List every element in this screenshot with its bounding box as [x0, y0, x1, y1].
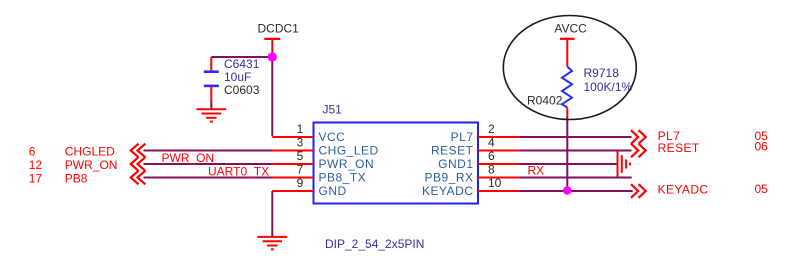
DNP circle marker	[503, 16, 636, 120]
pin 1 stub	[272, 136, 313, 138]
svg-text:AVCC: AVCC	[554, 22, 587, 36]
wire PL7 row	[519, 136, 631, 138]
wire UART0_TX row	[144, 177, 273, 179]
svg-text:12: 12	[29, 158, 43, 172]
svg-text:KEYADC: KEYADC	[658, 182, 709, 196]
wire junction to capacitor	[211, 56, 272, 58]
svg-text:7: 7	[297, 163, 304, 177]
wire KEYADC row	[519, 190, 633, 192]
svg-text:PB8_TX: PB8_TX	[319, 171, 367, 185]
ground below capacitor	[196, 109, 226, 121]
svg-text:R9718: R9718	[584, 66, 620, 80]
svg-text:10: 10	[488, 176, 502, 190]
svg-text:3: 3	[297, 136, 304, 150]
pin 3 stub	[272, 150, 313, 152]
svg-text:RESET: RESET	[431, 144, 474, 158]
svg-text:PB9_RX: PB9_RX	[424, 171, 473, 185]
svg-text:PWR_ON: PWR_ON	[162, 151, 215, 165]
pin 4 stub	[478, 150, 519, 152]
svg-text:R0402: R0402	[527, 94, 563, 108]
pin 8 stub	[478, 177, 519, 179]
svg-text:GND: GND	[319, 184, 347, 198]
svg-text:RX: RX	[528, 163, 545, 177]
pin 2 stub	[478, 136, 519, 138]
pin 10 stub	[478, 190, 519, 192]
svg-text:CHG_LED: CHG_LED	[319, 144, 379, 158]
svg-text:C6431: C6431	[224, 57, 260, 71]
ground right (rotated) on GND1	[618, 151, 630, 177]
svg-text:DCDC1: DCDC1	[258, 22, 300, 36]
svg-text:2: 2	[488, 122, 495, 136]
svg-text:1: 1	[297, 122, 304, 136]
svg-text:17: 17	[29, 172, 43, 186]
svg-text:PL7: PL7	[451, 130, 474, 144]
svg-text:8: 8	[488, 163, 495, 177]
wire AVCC pull-up vertical	[566, 115, 568, 190]
svg-text:10uF: 10uF	[224, 70, 251, 84]
pin 5 stub	[272, 163, 313, 165]
resistor R9718	[562, 67, 572, 116]
junction dot on KEYADC row	[563, 186, 571, 194]
svg-text:PWR_ON: PWR_ON	[319, 157, 375, 171]
svg-text:4: 4	[488, 136, 495, 150]
wire PWR_ON row	[144, 163, 273, 165]
svg-text:PWR_ON: PWR_ON	[65, 158, 118, 172]
svg-text:UART0_TX: UART0_TX	[208, 164, 269, 178]
svg-text:RESET: RESET	[658, 141, 700, 155]
svg-text:KEYADC: KEYADC	[422, 184, 473, 198]
svg-text:05: 05	[755, 182, 769, 196]
svg-text:GND1: GND1	[438, 157, 473, 171]
svg-text:100K/1%: 100K/1%	[584, 80, 633, 94]
svg-text:J51: J51	[323, 103, 343, 117]
svg-text:DIP_2_54_2x5PIN: DIP_2_54_2x5PIN	[325, 237, 424, 251]
off-page connector RESET	[631, 144, 646, 158]
off-page connector CHGLED	[131, 144, 146, 158]
off-page connector PL7	[631, 130, 646, 144]
off-page connector KEYADC	[631, 184, 646, 198]
svg-text:9: 9	[297, 176, 304, 190]
pin 6 stub	[478, 163, 519, 165]
ground below pin 9	[257, 237, 287, 249]
wire RX row	[519, 177, 632, 179]
pin 7 stub	[272, 177, 313, 179]
junction dot at DCDC1 node	[268, 52, 277, 61]
svg-text:VCC: VCC	[319, 130, 346, 144]
wire CHGLED row	[144, 150, 273, 152]
power port DCDC1	[258, 22, 300, 58]
off-page connector PWR_ON	[131, 157, 146, 171]
wire GND1 row	[519, 163, 617, 165]
svg-text:6: 6	[29, 145, 36, 159]
wire pin 9 to ground	[271, 191, 273, 237]
svg-text:06: 06	[755, 140, 769, 154]
pin 9 stub	[272, 190, 313, 192]
capacitor C6431	[204, 57, 219, 109]
power port AVCC	[554, 22, 587, 67]
wire junction down to pin 1	[271, 57, 273, 136]
svg-text:6: 6	[488, 149, 495, 163]
svg-text:5: 5	[297, 149, 304, 163]
op-amp?? no: connector J51 body	[314, 123, 479, 204]
svg-text:CHGLED: CHGLED	[65, 145, 115, 159]
wire RESET row	[519, 150, 631, 152]
off-page connector PB8	[131, 171, 146, 185]
svg-text:PB8: PB8	[65, 172, 88, 186]
svg-text:C0603: C0603	[224, 83, 260, 97]
